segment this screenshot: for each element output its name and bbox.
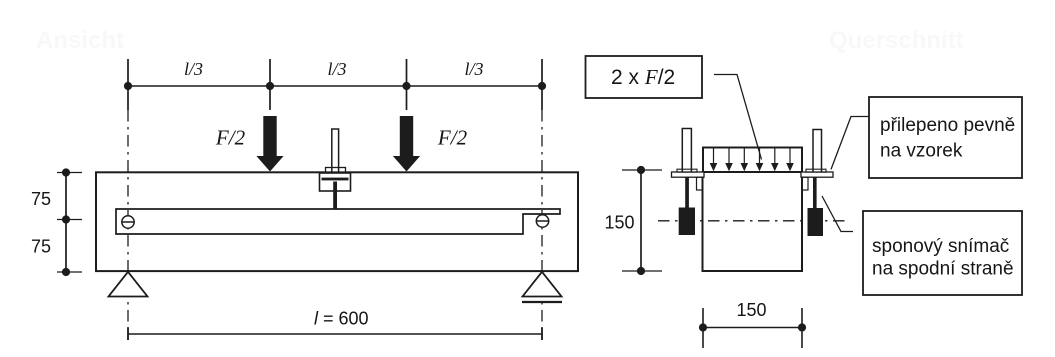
tick at support B (541, 59, 543, 110)
depth dot bottom (62, 268, 70, 276)
svg-text:l/3: l/3 (184, 59, 203, 79)
support triangle right (roller) (523, 272, 562, 297)
centerline left support (dash-dot) (127, 110, 129, 340)
force arrow F/2 left (256, 116, 283, 172)
svg-text:sponový snímač: sponový snímač (872, 236, 1009, 257)
svg-text:75: 75 (31, 237, 51, 257)
height tick top (622, 169, 662, 171)
height dot bottom (637, 267, 645, 275)
width tick right (801, 308, 803, 348)
depth tick bottom (57, 271, 82, 273)
fixture box on beam (320, 173, 351, 191)
svg-text:F/2: F/2 (437, 126, 468, 150)
depth tick middle (57, 219, 82, 221)
top dimension line l/3 l/3 l/3 (128, 85, 542, 87)
gauge knife edge circle right (536, 215, 548, 227)
distributed load arrow 4 (756, 149, 764, 172)
rod foot right (806, 169, 826, 172)
svg-text:l = 600: l = 600 (314, 309, 369, 329)
sensor block right (808, 208, 824, 236)
left depth dimension line (65, 173, 67, 273)
sensor stem left (685, 177, 689, 207)
cross-section square (703, 172, 803, 271)
height tick bottom (622, 270, 662, 272)
distributed load arrow 3 (741, 149, 749, 172)
gauge knife edge circle right diameter line (536, 220, 549, 222)
node dot B (538, 82, 546, 90)
node dot load1 (266, 82, 274, 90)
end tick right (541, 328, 543, 341)
rod left of section (682, 129, 691, 172)
fixture clamp bar (black) (322, 178, 349, 181)
svg-text:150: 150 (604, 213, 634, 233)
width dot left (699, 323, 707, 331)
glued plate overhang right (801, 172, 833, 177)
svg-text:l/3: l/3 (327, 59, 346, 79)
node dot load2 (402, 82, 410, 90)
gauge knife edge circle left (122, 216, 134, 228)
gauge bar (sponovy snimac) (116, 209, 560, 234)
support triangle left (pin) (109, 272, 148, 297)
node dot A (124, 82, 132, 90)
svg-text:Querschnitt: Querschnitt (829, 27, 964, 54)
rod foot left (677, 169, 697, 172)
leader from 2xF/2 box (714, 75, 762, 160)
sensor stem right (813, 177, 817, 208)
svg-text:přilepeno pevně: přilepeno pevně (880, 115, 1015, 136)
leader to bottom label box (822, 196, 853, 232)
distributed load arrow 6 (786, 149, 794, 172)
horizontal centerline of section (dash-dot) (658, 220, 848, 222)
sensor block left (679, 208, 695, 236)
depth dot top (62, 168, 70, 176)
callout box 2 x F/2 (586, 56, 703, 98)
LVDT foot plate (326, 168, 346, 173)
width dot right (798, 323, 806, 331)
beam specimen rectangle (96, 172, 578, 271)
svg-text:150: 150 (736, 300, 766, 320)
svg-text:Ansicht: Ansicht (36, 27, 124, 54)
load strip on top (703, 148, 802, 173)
distributed load arrow 2 (725, 149, 733, 172)
fixture stem down to gauge bar (333, 182, 337, 210)
bracket right (802, 177, 808, 190)
depth dot middle (62, 215, 70, 223)
distributed load arrow 5 (771, 149, 779, 172)
depth tick top (57, 172, 82, 174)
tick at load 2 (406, 59, 408, 110)
svg-text:F/2: F/2 (215, 126, 246, 150)
tick at support A (127, 59, 129, 110)
width tick left (702, 308, 704, 348)
glued plate overhang left (672, 172, 705, 177)
bracket left (697, 177, 703, 190)
centerline right support (dash-dot) (541, 110, 543, 340)
distributed load arrow 1 (710, 149, 718, 172)
gauge knife edge circle left diameter line (121, 221, 134, 223)
section width dimension line 150 (703, 327, 802, 329)
rod right of section (813, 130, 822, 172)
force arrow F/2 right (393, 116, 420, 172)
leader to top label box (831, 117, 870, 170)
svg-text:na spodní straně: na spodní straně (872, 259, 1014, 280)
height dot top (637, 166, 645, 174)
svg-text:75: 75 (31, 189, 51, 209)
svg-text:na vzorek: na vzorek (880, 141, 963, 162)
LVDT rod above beam (332, 129, 339, 172)
bottom dimension line l=600 (128, 333, 542, 335)
end tick left (127, 328, 129, 341)
roller base line (522, 301, 562, 303)
svg-text:2 x F/2: 2 x F/2 (611, 65, 675, 89)
svg-text:l/3: l/3 (464, 59, 483, 79)
tick at load 1 (269, 59, 271, 110)
label box prilepeno pevne (869, 97, 1022, 178)
section height dimension line 150 (640, 170, 642, 271)
label box sponovy snimac (863, 211, 1022, 295)
